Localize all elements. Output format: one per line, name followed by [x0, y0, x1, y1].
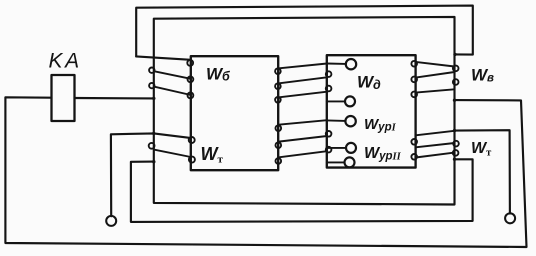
terminal circle 5 of winding Wур.II	[327, 157, 355, 167]
winding Wт left turns	[149, 137, 195, 163]
core T1 (left transformer block)	[191, 56, 278, 170]
winding Wв right turns	[411, 61, 458, 97]
terminal circle 1 of winding Wд	[327, 59, 356, 69]
terminal circle 4 of winding Wур.II	[327, 143, 356, 153]
terminal circle 3 of winding Wур.I	[327, 116, 356, 126]
svg-text:KA: KA	[49, 50, 82, 73]
terminal circle 2 of winding Wд	[327, 96, 355, 106]
coupling turns bottom (between cores)	[276, 120, 332, 164]
wire outer loop left stub to core T1	[136, 56, 191, 59]
wire outer top loop	[136, 6, 473, 57]
winding Wт right turns	[411, 131, 458, 160]
wire secondary loop bottom	[131, 159, 473, 222]
svg-text:Wв: Wв	[471, 66, 494, 85]
wire right rail to bottom-right terminal	[455, 130, 510, 213]
relay KA coil	[52, 75, 75, 121]
winding Wв left turns	[149, 60, 193, 98]
wire from bottom-left terminal to winding Wт left	[111, 133, 190, 216]
core T2 (right transformer block)	[327, 55, 416, 167]
wire KA right to left rail	[75, 97, 154, 100]
node junction dots	[152, 53, 457, 164]
node terminal circle bottom-right	[505, 213, 515, 223]
wire inner loop (rails and bottom connection)	[154, 17, 455, 205]
svg-text:Wт: Wт	[471, 140, 492, 159]
wire KA left around outer border	[5, 97, 526, 247]
coupling turns top (between cores)	[275, 64, 331, 103]
node terminal circle bottom-left	[106, 216, 116, 226]
